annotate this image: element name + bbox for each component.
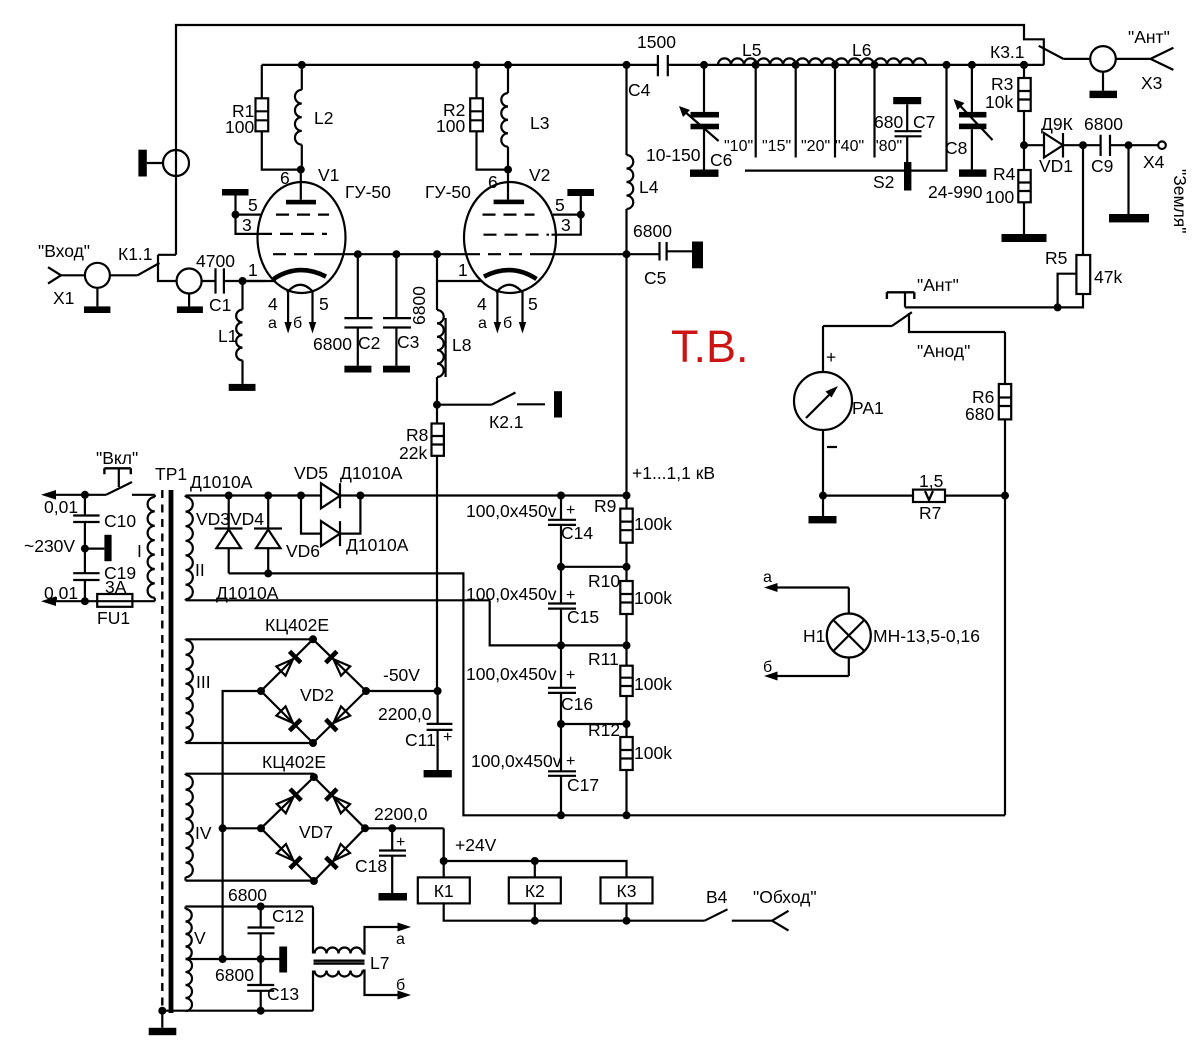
svg-text:100k: 100k (634, 743, 672, 763)
svg-text:5: 5 (319, 294, 329, 314)
svg-text:Д1010А: Д1010А (190, 472, 253, 492)
svg-text:2200,0: 2200,0 (374, 804, 428, 824)
svg-text:Д1010А: Д1010А (340, 463, 403, 483)
svg-text:"80": "80" (873, 138, 902, 155)
svg-text:FU1: FU1 (97, 608, 130, 628)
svg-text:C12: C12 (272, 906, 304, 926)
svg-text:R3: R3 (991, 74, 1013, 94)
svg-text:III: III (196, 672, 211, 692)
svg-text:V1: V1 (318, 165, 339, 185)
svg-text:C5: C5 (644, 268, 666, 288)
svg-text:"15": "15" (762, 138, 791, 155)
svg-text:Т.В.: Т.В. (671, 321, 749, 372)
svg-text:100: 100 (985, 187, 1014, 207)
svg-text:6: 6 (488, 172, 498, 192)
svg-text:6800: 6800 (313, 334, 352, 354)
svg-text:L7: L7 (370, 953, 389, 973)
svg-text:0,01: 0,01 (44, 583, 78, 603)
svg-text:+24V: +24V (455, 835, 497, 855)
svg-text:C10: C10 (104, 511, 136, 531)
svg-text:C3: C3 (397, 332, 419, 352)
svg-text:-50V: -50V (383, 665, 420, 685)
svg-text:3: 3 (242, 215, 252, 235)
svg-text:VD4: VD4 (230, 509, 264, 529)
svg-text:C17: C17 (567, 775, 599, 795)
svg-text:К1.1: К1.1 (118, 244, 153, 264)
svg-text:МН-13,5-0,16: МН-13,5-0,16 (873, 626, 980, 646)
svg-text:C2: C2 (358, 333, 380, 353)
svg-text:2200,0: 2200,0 (378, 704, 432, 724)
svg-text:L5: L5 (742, 40, 761, 60)
svg-text:0,01: 0,01 (44, 497, 78, 517)
svg-text:VD6: VD6 (286, 541, 320, 561)
svg-text:КЦ402Е: КЦ402Е (262, 752, 326, 772)
svg-text:L4: L4 (639, 177, 659, 197)
svg-text:б: б (503, 315, 512, 332)
svg-text:PA1: PA1 (852, 398, 884, 418)
svg-text:R8: R8 (406, 425, 428, 445)
svg-text:+: + (566, 667, 575, 684)
svg-text:680: 680 (874, 112, 903, 132)
svg-text:4700: 4700 (196, 251, 235, 271)
svg-text:КЦ402Е: КЦ402Е (265, 615, 329, 635)
svg-text:а: а (268, 315, 277, 332)
svg-text:"Вкл": "Вкл" (96, 448, 138, 468)
svg-text:100: 100 (436, 116, 465, 136)
svg-text:"Земля": "Земля" (1170, 169, 1190, 233)
svg-text:L6: L6 (852, 40, 871, 60)
svg-text:S2: S2 (873, 172, 894, 192)
svg-text:C7: C7 (913, 112, 935, 132)
svg-text:+: + (566, 753, 575, 770)
svg-text:Д1010А: Д1010А (346, 535, 409, 555)
svg-text:+: + (826, 347, 836, 367)
svg-text:1500: 1500 (637, 32, 676, 52)
svg-text:R11: R11 (588, 649, 619, 669)
svg-text:6800: 6800 (215, 965, 254, 985)
svg-text:VD3: VD3 (196, 509, 230, 529)
svg-text:C4: C4 (628, 80, 651, 100)
svg-text:"Ант": "Ант" (1128, 27, 1170, 47)
svg-text:а: а (763, 569, 772, 586)
svg-text:H1: H1 (803, 626, 825, 646)
svg-text:10-150: 10-150 (646, 145, 701, 165)
svg-text:II: II (195, 560, 205, 580)
svg-text:+: + (566, 502, 575, 519)
svg-text:100,0x450v: 100,0x450v (471, 751, 562, 771)
svg-text:ТР1: ТР1 (155, 464, 187, 484)
svg-text:22k: 22k (399, 443, 427, 463)
svg-text:"40": "40" (835, 138, 864, 155)
svg-text:X1: X1 (53, 288, 74, 308)
svg-text:1: 1 (248, 260, 258, 280)
svg-text:5: 5 (528, 294, 538, 314)
svg-text:10k: 10k (985, 92, 1013, 112)
svg-text:100k: 100k (634, 588, 672, 608)
svg-text:1,5: 1,5 (919, 471, 943, 491)
svg-text:100: 100 (225, 117, 254, 137)
svg-text:К3.1: К3.1 (990, 42, 1025, 62)
svg-text:VD5: VD5 (294, 463, 328, 483)
svg-text:4: 4 (477, 294, 487, 314)
svg-text:L8: L8 (452, 335, 471, 355)
svg-text:I: I (137, 541, 142, 561)
svg-text:C1: C1 (209, 295, 231, 315)
svg-text:L2: L2 (314, 108, 333, 128)
svg-text:V: V (194, 928, 206, 948)
svg-text:5: 5 (248, 195, 258, 215)
svg-text:L1: L1 (218, 326, 237, 346)
svg-text:C8: C8 (945, 138, 967, 158)
svg-text:R12: R12 (588, 720, 620, 740)
svg-text:C16: C16 (561, 694, 593, 714)
svg-text:3А: 3А (105, 577, 127, 597)
svg-text:6: 6 (280, 168, 290, 188)
svg-text:а: а (396, 931, 405, 948)
svg-text:6800: 6800 (409, 286, 429, 325)
svg-text:б: б (293, 315, 302, 332)
svg-text:R5: R5 (1045, 248, 1067, 268)
svg-text:~230V: ~230V (24, 536, 75, 556)
svg-text:"Ант": "Ант" (917, 275, 959, 295)
svg-text:6800: 6800 (228, 885, 267, 905)
svg-text:C14: C14 (561, 523, 593, 543)
svg-text:"20": "20" (801, 138, 830, 155)
svg-text:VD1: VD1 (1039, 156, 1073, 176)
svg-text:680: 680 (965, 404, 994, 424)
svg-text:100,0x450v: 100,0x450v (466, 584, 557, 604)
svg-text:IV: IV (195, 823, 212, 843)
svg-text:C11: C11 (405, 730, 436, 750)
svg-text:B4: B4 (706, 887, 728, 907)
svg-text:R9: R9 (594, 496, 616, 516)
svg-text:6800: 6800 (633, 221, 672, 241)
svg-text:+1...1,1 кВ: +1...1,1 кВ (632, 463, 715, 483)
svg-text:"Обход": "Обход" (753, 887, 817, 907)
svg-text:24-990: 24-990 (928, 182, 983, 202)
svg-text:C13: C13 (267, 984, 299, 1004)
svg-text:ГУ-50: ГУ-50 (345, 182, 391, 202)
svg-text:X3: X3 (1141, 73, 1162, 93)
svg-text:б: б (763, 659, 772, 676)
svg-text:6800: 6800 (1084, 114, 1123, 134)
svg-text:б: б (396, 977, 405, 994)
svg-text:1: 1 (458, 260, 468, 280)
svg-text:VD2: VD2 (300, 685, 334, 705)
svg-text:+: + (566, 587, 575, 604)
svg-text:V2: V2 (529, 165, 550, 185)
svg-text:C15: C15 (567, 607, 599, 627)
svg-text:100,0x450v: 100,0x450v (466, 501, 557, 521)
svg-text:100,0x450v: 100,0x450v (466, 664, 557, 684)
svg-text:К2.1: К2.1 (489, 412, 524, 432)
svg-text:"Вход": "Вход" (38, 241, 90, 261)
svg-text:ГУ-50: ГУ-50 (425, 182, 471, 202)
svg-text:VD7: VD7 (299, 822, 333, 842)
svg-text:R10: R10 (588, 571, 620, 591)
svg-text:"10": "10" (724, 138, 753, 155)
svg-text:+: + (396, 834, 405, 851)
svg-text:C18: C18 (355, 856, 387, 876)
svg-text:R4: R4 (993, 164, 1016, 184)
svg-text:47k: 47k (1094, 267, 1122, 287)
svg-text:100k: 100k (634, 514, 672, 534)
svg-text:C9: C9 (1091, 156, 1113, 176)
svg-text:Д9К: Д9К (1041, 114, 1074, 134)
svg-text:100k: 100k (634, 674, 672, 694)
svg-text:5: 5 (555, 195, 565, 215)
svg-text:Д1010А: Д1010А (216, 583, 279, 603)
svg-text:X4: X4 (1143, 152, 1165, 172)
svg-text:К3: К3 (617, 881, 637, 901)
svg-text:а: а (478, 315, 487, 332)
svg-text:К2: К2 (525, 881, 545, 901)
svg-text:3: 3 (561, 215, 571, 235)
svg-text:К1: К1 (434, 881, 454, 901)
svg-text:+: + (443, 729, 452, 746)
svg-text:4: 4 (268, 294, 278, 314)
svg-text:R7: R7 (919, 503, 941, 523)
svg-text:"Анод": "Анод" (917, 341, 970, 361)
svg-text:L3: L3 (530, 113, 549, 133)
